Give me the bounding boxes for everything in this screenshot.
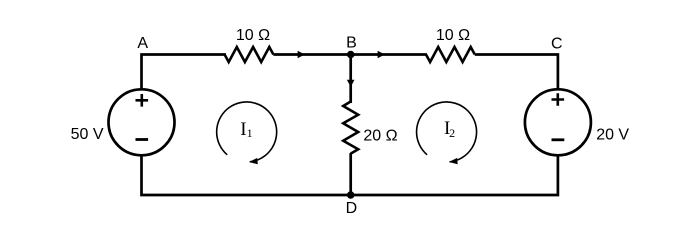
wire: node D to bottom-left corner to source V1 bottom — [142, 154, 351, 195]
voltage source V1 circle — [109, 89, 175, 155]
V1 plus terminal — [136, 94, 149, 107]
svg-text:I1: I1 — [240, 119, 252, 140]
wire: source V2 bottom to bottom-right corner to node D — [351, 154, 558, 195]
svg-text:A: A — [137, 35, 148, 52]
mesh current loop I1 arc — [217, 102, 277, 162]
wire: node B down to resistor R3 — [349, 55, 352, 104]
node D junction dot — [347, 191, 355, 199]
V2 plus terminal — [552, 93, 565, 106]
svg-text:10 Ω: 10 Ω — [436, 27, 470, 44]
wire: resistor R2 to node C corner down to source V2 top — [475, 55, 558, 91]
svg-text:C: C — [551, 35, 563, 52]
wire: resistor R3 to node D — [349, 153, 352, 195]
wire: node B to resistor R2 — [351, 53, 427, 56]
current direction arrow between R1 and node B — [298, 51, 305, 59]
mesh current loop I2 arrowhead — [449, 158, 458, 164]
svg-text:20 V: 20 V — [596, 127, 629, 144]
V1 minus terminal — [136, 138, 149, 141]
svg-text:I2: I2 — [444, 118, 455, 140]
wire: top-left corner, source V1 top to node A to resistor R1 — [142, 55, 227, 91]
svg-text:50 V: 50 V — [71, 126, 104, 143]
svg-text:20 Ω: 20 Ω — [363, 128, 397, 145]
voltage source V2 circle — [525, 89, 591, 155]
node B junction dot — [347, 51, 355, 59]
current direction arrow down middle branch — [347, 80, 355, 87]
wire: resistor R1 to node B — [273, 53, 350, 56]
svg-text:D: D — [346, 200, 358, 217]
resistor R3 vertical zigzag — [343, 102, 358, 154]
current direction arrow between node B and R2 — [378, 51, 385, 59]
mesh current loop I1 arrowhead — [249, 158, 258, 164]
mesh current loop I2 arc — [417, 102, 477, 162]
V2 minus terminal — [552, 138, 565, 141]
resistor R2 zigzag — [426, 47, 475, 62]
svg-text:10 Ω: 10 Ω — [236, 27, 270, 44]
resistor R1 zigzag — [225, 47, 274, 62]
svg-text:B: B — [346, 35, 357, 52]
